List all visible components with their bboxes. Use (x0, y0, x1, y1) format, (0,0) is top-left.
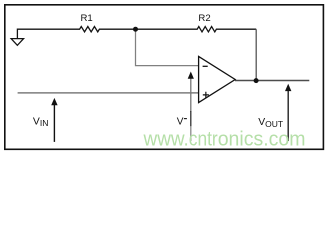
svg-text:V: V (177, 117, 184, 128)
svg-text:VIN: VIN (33, 116, 49, 128)
svg-text:R1: R1 (81, 13, 93, 24)
svg-text:onics.com: onics.com (218, 129, 306, 151)
svg-text:VOUT: VOUT (258, 117, 283, 129)
svg-text:R2: R2 (198, 13, 210, 24)
svg-text:www.: www. (143, 129, 189, 151)
svg-text:cntr: cntr (189, 129, 218, 151)
